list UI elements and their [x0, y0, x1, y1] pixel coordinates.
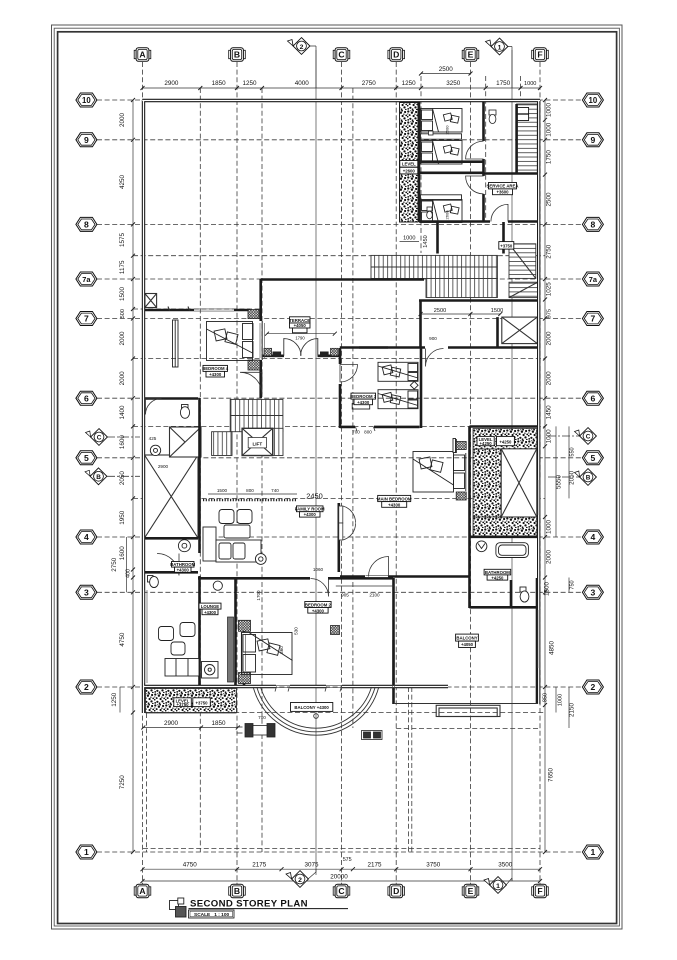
svg-text:2600: 2600 — [445, 210, 450, 220]
svg-text:6: 6 — [84, 393, 89, 403]
svg-text:1175: 1175 — [119, 260, 126, 274]
svg-text:1700: 1700 — [256, 590, 261, 601]
svg-text:10: 10 — [82, 96, 91, 105]
svg-text:9: 9 — [591, 135, 596, 145]
svg-text:2500: 2500 — [546, 192, 553, 207]
svg-text:1500: 1500 — [217, 488, 228, 493]
svg-text:850: 850 — [543, 693, 549, 702]
svg-text:9: 9 — [84, 135, 89, 145]
svg-text:7a: 7a — [589, 275, 598, 284]
svg-text:1450: 1450 — [423, 235, 429, 247]
svg-text:4000: 4000 — [295, 80, 310, 87]
svg-text:750: 750 — [570, 580, 576, 589]
svg-text:+4050: +4050 — [461, 642, 474, 647]
svg-text:+3600: +3600 — [496, 190, 509, 195]
svg-text:2: 2 — [300, 44, 304, 51]
svg-text:+4300: +4300 — [304, 512, 317, 517]
svg-text:BEDROOM 3: BEDROOM 3 — [350, 394, 377, 399]
svg-text:+3750: +3750 — [195, 701, 208, 706]
svg-text:2000: 2000 — [119, 113, 126, 128]
svg-text:A: A — [139, 50, 145, 60]
svg-text:C: C — [338, 50, 344, 60]
svg-text:BATHROOM: BATHROOM — [485, 570, 510, 575]
svg-text:2175: 2175 — [252, 862, 267, 869]
svg-text:530: 530 — [294, 627, 299, 635]
svg-text:700: 700 — [352, 430, 360, 435]
svg-text:1250: 1250 — [402, 80, 417, 87]
svg-text:7a: 7a — [82, 275, 91, 284]
svg-text:E: E — [468, 886, 474, 896]
svg-text:5: 5 — [591, 453, 596, 463]
svg-text:SECOND STOREY PLAN: SECOND STOREY PLAN — [190, 899, 308, 910]
svg-text:+4300: +4300 — [357, 400, 370, 405]
svg-text:1: 1 — [84, 847, 89, 857]
svg-text:1000: 1000 — [558, 694, 564, 706]
svg-text:B: B — [234, 886, 240, 896]
svg-text:2000: 2000 — [546, 371, 553, 386]
svg-text:1: 1 — [496, 883, 500, 890]
svg-text:4: 4 — [591, 532, 596, 542]
svg-text:+4300: +4300 — [388, 502, 401, 507]
svg-text:740: 740 — [271, 488, 279, 493]
svg-text:905: 905 — [341, 593, 349, 598]
svg-text:1000: 1000 — [524, 81, 536, 87]
svg-text:1250: 1250 — [242, 80, 257, 87]
svg-text:8: 8 — [84, 220, 89, 230]
svg-text:1025: 1025 — [546, 282, 553, 297]
svg-text:2500: 2500 — [439, 66, 454, 73]
svg-text:1850: 1850 — [211, 720, 226, 727]
svg-text:BEDROOM 2: BEDROOM 2 — [305, 602, 332, 607]
svg-text:4750: 4750 — [119, 632, 126, 647]
svg-text:7: 7 — [591, 314, 596, 324]
svg-text:1750: 1750 — [496, 80, 511, 87]
svg-text:2: 2 — [84, 682, 89, 692]
svg-text:1500: 1500 — [119, 287, 126, 302]
svg-text:7250: 7250 — [119, 775, 126, 790]
svg-text:+4300: +4300 — [204, 610, 217, 615]
svg-text:700: 700 — [258, 715, 266, 720]
svg-text:5550: 5550 — [556, 475, 563, 490]
svg-text:B: B — [586, 475, 591, 482]
svg-text:1750: 1750 — [546, 150, 553, 165]
svg-text:360: 360 — [279, 646, 284, 654]
svg-text:BALCONY +4300: BALCONY +4300 — [294, 705, 329, 710]
svg-text:LIFT: LIFT — [252, 442, 262, 447]
svg-text:+3750: +3750 — [176, 702, 189, 707]
svg-text:2750: 2750 — [111, 557, 118, 572]
svg-text:1600: 1600 — [119, 435, 126, 450]
svg-text:2600: 2600 — [445, 125, 450, 135]
svg-text:MAIN BEDROOM: MAIN BEDROOM — [377, 496, 412, 501]
svg-text:2450: 2450 — [306, 492, 322, 501]
svg-text:+4300: +4300 — [209, 372, 222, 377]
svg-text:B: B — [96, 474, 101, 481]
svg-text:1500: 1500 — [491, 308, 503, 314]
svg-text:+4300: +4300 — [177, 568, 190, 573]
svg-text:975: 975 — [547, 309, 553, 318]
svg-text:SERVICE AREA: SERVICE AREA — [487, 184, 519, 189]
svg-text:2050: 2050 — [119, 471, 126, 486]
svg-text:2000: 2000 — [546, 550, 553, 565]
svg-text:TERRACE: TERRACE — [289, 318, 310, 323]
svg-text:2100: 2100 — [369, 593, 380, 598]
svg-text:FAMILY ROOM: FAMILY ROOM — [295, 507, 325, 512]
svg-text:2175: 2175 — [367, 862, 382, 869]
svg-text:4: 4 — [84, 532, 89, 542]
svg-text:575: 575 — [343, 857, 352, 863]
svg-text:SCALE 1 : 100: SCALE 1 : 100 — [194, 912, 230, 918]
svg-text:2900: 2900 — [158, 464, 169, 469]
svg-text:B: B — [234, 50, 240, 60]
svg-text:1250: 1250 — [111, 692, 118, 707]
svg-text:1850: 1850 — [212, 80, 227, 87]
svg-text:+4050: +4050 — [294, 323, 307, 328]
svg-text:+4250: +4250 — [480, 441, 493, 446]
svg-text:1500: 1500 — [544, 582, 551, 597]
svg-text:LEVEL: LEVEL — [402, 162, 416, 167]
svg-text:1950: 1950 — [119, 510, 126, 525]
svg-text:1000: 1000 — [546, 122, 553, 137]
svg-text:6: 6 — [591, 393, 596, 403]
svg-text:BEDROOM 4: BEDROOM 4 — [202, 366, 229, 371]
svg-text:1060: 1060 — [313, 567, 324, 572]
svg-text:4250: 4250 — [119, 175, 126, 190]
svg-text:3: 3 — [84, 588, 89, 598]
svg-text:C: C — [338, 886, 344, 896]
svg-text:3500: 3500 — [498, 862, 513, 869]
svg-text:1000: 1000 — [403, 236, 415, 242]
svg-text:3: 3 — [591, 588, 596, 598]
svg-text:BATHROOM: BATHROOM — [170, 562, 195, 567]
svg-text:D: D — [393, 886, 399, 896]
svg-text:7650: 7650 — [548, 768, 555, 783]
svg-text:550: 550 — [570, 447, 576, 456]
svg-text:2: 2 — [591, 682, 596, 692]
svg-text:F: F — [537, 50, 542, 60]
svg-text:800: 800 — [246, 488, 254, 493]
svg-text:1: 1 — [591, 847, 596, 857]
svg-text:425: 425 — [149, 436, 157, 441]
svg-text:2750: 2750 — [546, 244, 553, 259]
svg-text:1400: 1400 — [119, 405, 126, 420]
svg-text:+4250: +4250 — [491, 575, 504, 580]
svg-text:3250: 3250 — [446, 80, 461, 87]
svg-text:2900: 2900 — [164, 720, 179, 727]
svg-text:2750: 2750 — [362, 80, 377, 87]
svg-text:D: D — [393, 50, 399, 60]
svg-text:+4300: +4300 — [312, 608, 325, 613]
svg-text:2900: 2900 — [164, 80, 179, 87]
svg-text:2: 2 — [298, 877, 302, 884]
svg-text:1790: 1790 — [295, 336, 305, 341]
svg-text:A: A — [139, 886, 145, 896]
svg-text:LOUNGE: LOUNGE — [201, 604, 220, 609]
svg-text:2000: 2000 — [119, 331, 126, 346]
svg-text:BALCONY: BALCONY — [456, 636, 477, 641]
svg-text:3075: 3075 — [304, 862, 319, 869]
svg-text:1000: 1000 — [546, 520, 553, 535]
svg-text:2000: 2000 — [119, 371, 126, 386]
svg-text:900: 900 — [429, 336, 437, 341]
svg-text:C: C — [97, 435, 102, 442]
svg-text:8: 8 — [591, 220, 596, 230]
svg-text:2150: 2150 — [569, 703, 576, 718]
svg-text:5: 5 — [84, 453, 89, 463]
svg-text:500: 500 — [120, 309, 126, 318]
svg-text:+4250: +4250 — [499, 440, 512, 445]
svg-text:1000: 1000 — [546, 429, 553, 444]
svg-text:10: 10 — [589, 96, 598, 105]
svg-text:+3750: +3750 — [500, 243, 513, 248]
svg-text:4850: 4850 — [549, 641, 556, 656]
svg-text:1600: 1600 — [119, 546, 126, 561]
svg-text:3750: 3750 — [426, 862, 441, 869]
svg-text:C: C — [586, 434, 591, 441]
svg-text:1000: 1000 — [546, 103, 553, 118]
svg-text:4750: 4750 — [183, 862, 198, 869]
svg-text:1: 1 — [498, 44, 502, 51]
svg-text:7: 7 — [84, 314, 89, 324]
svg-text:1575: 1575 — [119, 233, 126, 248]
svg-text:F: F — [537, 886, 542, 896]
svg-text:2500: 2500 — [434, 308, 446, 314]
svg-text:400: 400 — [126, 569, 132, 578]
svg-text:E: E — [468, 50, 474, 60]
svg-text:2000: 2000 — [546, 331, 553, 346]
svg-text:800: 800 — [364, 430, 372, 435]
svg-text:20000: 20000 — [330, 874, 348, 881]
svg-text:+2600: +2600 — [403, 168, 416, 173]
svg-text:1450: 1450 — [546, 405, 553, 420]
